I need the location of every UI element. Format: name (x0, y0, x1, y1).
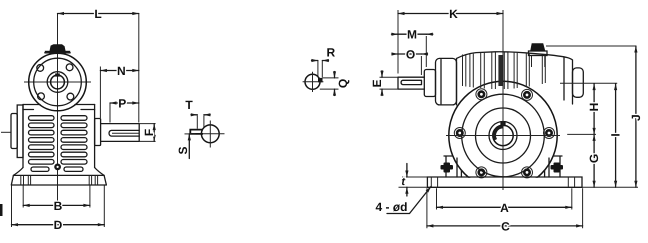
left view output shaft (101, 124, 140, 142)
right view housing ribs (463, 52, 546, 89)
left view body left wall (22, 105, 24, 168)
right view right foot gusset (549, 156, 562, 177)
right view output end cap (573, 68, 584, 97)
dimension T (197, 116, 204, 129)
right view bore keyway notch (500, 122, 505, 127)
extension line base bottom right (582, 186, 638, 188)
left view base flare left (13, 168, 23, 176)
extension line worm centerline to H I (567, 133, 596, 135)
right view flange bolts (457, 92, 552, 175)
left view vertical centerline (57, 14, 59, 210)
svg-text:R: R (326, 46, 335, 60)
R/Q detail key tab (318, 78, 323, 82)
dimension G (593, 134, 595, 187)
right view outer round body (449, 81, 557, 189)
dimension P (109, 103, 111, 123)
shaft end detail R/Q circle (305, 74, 320, 89)
dimension B (23, 186, 90, 208)
right view output bore inner (493, 125, 513, 145)
svg-text:O: O (406, 48, 415, 62)
right view input shaft keyway (401, 80, 421, 84)
right view housing inner right wall (563, 57, 565, 100)
left view body top shoulder right (75, 105, 95, 110)
left view input horizontal centerline (24, 81, 91, 83)
right view right anchor bolt (554, 163, 561, 173)
svg-text:M: M (407, 28, 417, 42)
label 4-phi-d with leader (387, 187, 431, 214)
left view body right wall (94, 105, 96, 168)
right view input large end housing (436, 58, 457, 105)
dimension S (185, 133, 196, 135)
svg-text:H: H (587, 103, 601, 112)
left view drain plug (54, 164, 61, 171)
left view input flange outer circle (29, 53, 87, 111)
left view base outline (11, 175, 106, 185)
svg-text:C: C (501, 219, 510, 233)
dimension E (380, 77, 398, 89)
dimension I (615, 84, 617, 188)
right view output flange circle (462, 94, 545, 177)
left view base foot hole ticks (21, 176, 98, 185)
right view output bore outer (489, 122, 517, 150)
right view left foot gusset (444, 156, 457, 177)
S/T detail crosshair (197, 121, 225, 148)
svg-text:D: D (54, 218, 63, 232)
right view worm shaft centerline right (560, 82, 617, 84)
svg-text:A: A (500, 201, 509, 215)
left view input bore inner (51, 75, 65, 89)
dimension A (437, 188, 572, 209)
svg-text:F: F (142, 129, 156, 136)
svg-text:G: G (587, 154, 601, 163)
right view breather plug (529, 51, 548, 56)
svg-text:P: P (118, 97, 126, 111)
R/Q detail crosshair (303, 72, 324, 92)
right view base plate hole ticks (431, 177, 574, 187)
left view input flange inner circle (34, 58, 82, 106)
right view base plate (427, 177, 582, 187)
svg-text:B: B (54, 199, 63, 213)
S/T detail key bar (190, 130, 203, 134)
left view flange bolt holes (37, 65, 44, 72)
dimension K (397, 10, 399, 74)
left view cooling fin slots (29, 116, 88, 172)
right view foot tangent lines (461, 170, 544, 177)
left view output horizontal centerline stub (1, 131, 11, 133)
dimension O (420, 56, 422, 75)
shaft end detail S/T circle (201, 125, 219, 143)
dimension M (425, 36, 427, 67)
left view base flare right (95, 168, 105, 176)
right view left anchor bolt (444, 163, 451, 173)
left view output bearing cap (95, 119, 101, 146)
extension line top of gearbox to J (546, 45, 636, 47)
left view breather cap (49, 44, 66, 52)
svg-text:E: E (370, 79, 384, 87)
right view worm housing main top (457, 52, 573, 105)
right view vertical centerline / K extension (502, 10, 504, 190)
dimension F (139, 124, 155, 142)
svg-text:I: I (609, 133, 623, 136)
right view output inner circle (476, 108, 531, 163)
right view flange bolt lugs (454, 89, 554, 178)
dimension H (593, 84, 595, 135)
svg-text:Q: Q (336, 79, 350, 88)
svg-text:T: T (185, 98, 193, 112)
right view input shaft (398, 77, 424, 89)
svg-text:J: J (629, 114, 643, 121)
dimension D (12, 186, 105, 228)
dimension N (99, 67, 101, 119)
dimension C (427, 188, 583, 228)
dimension J (635, 46, 637, 187)
svg-text:4 - ød: 4 - ød (375, 200, 407, 214)
dimension t (399, 177, 428, 187)
svg-text:K: K (449, 7, 458, 21)
scan smudge left edge (0, 204, 3, 216)
svg-text:N: N (117, 64, 126, 78)
right view bore shading (493, 125, 503, 140)
left view output hub flange (left side) (17, 105, 23, 158)
left view bore keyway notch (55, 73, 60, 76)
left view input bore outer (47, 72, 68, 93)
svg-text:L: L (94, 7, 101, 21)
left view body top shoulder left (23, 105, 40, 110)
svg-text:S: S (176, 146, 190, 154)
dimension L (138, 14, 140, 123)
dimension Q (320, 78, 339, 89)
left view output hub cap (left side) (11, 114, 17, 149)
left view output shaft keyway (109, 130, 139, 136)
right view output crosshair (446, 135, 560, 137)
dimension R (318, 61, 322, 78)
right view base mask (430, 178, 576, 193)
right view input bearing cap (424, 70, 435, 97)
